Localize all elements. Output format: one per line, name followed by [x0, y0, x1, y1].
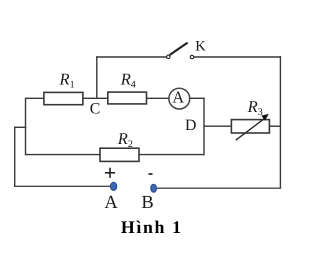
terminal B [151, 184, 157, 192]
wire [147, 97, 169, 99]
wire [96, 56, 167, 58]
wire [26, 97, 45, 99]
wire [139, 154, 204, 156]
label + [105, 168, 115, 178]
svg-text:R2: R2 [117, 129, 133, 150]
wire [14, 185, 111, 187]
wire [15, 126, 27, 128]
svg-text:C: C [90, 101, 101, 118]
wire [269, 125, 280, 127]
label - [149, 173, 153, 175]
svg-text:R3: R3 [247, 97, 263, 118]
wire [14, 127, 16, 187]
terminal A [110, 182, 116, 190]
wire [194, 56, 281, 58]
resistor R4 [108, 92, 147, 104]
svg-text:A: A [172, 88, 184, 107]
resistor R1 [44, 92, 83, 104]
svg-text:B: B [141, 193, 153, 213]
svg-text:Hình 1: Hình 1 [121, 217, 183, 237]
wire [25, 98, 27, 156]
svg-text:A: A [104, 193, 118, 213]
rheostat R3 [231, 114, 269, 140]
svg-text:D: D [185, 117, 196, 134]
svg-text:R4: R4 [120, 69, 136, 90]
wire [26, 154, 101, 156]
resistor R2 [100, 148, 139, 161]
wire [190, 97, 205, 99]
svg-text:K: K [195, 39, 206, 55]
wire [204, 125, 231, 127]
wire [83, 97, 108, 99]
wire [156, 187, 281, 189]
ammeter A [169, 88, 190, 109]
svg-text:R1: R1 [59, 69, 75, 90]
switch K [167, 43, 194, 59]
wire [96, 56, 98, 98]
wire [203, 98, 205, 156]
wire [279, 56, 281, 188]
